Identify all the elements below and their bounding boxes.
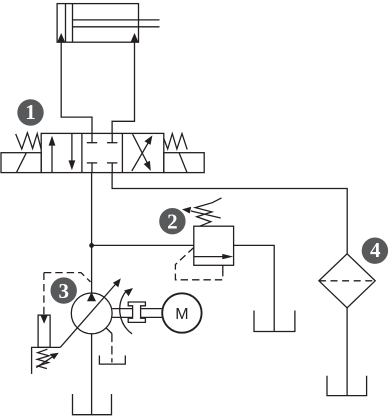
valve center square blocked ports [87, 133, 118, 172]
compensator feedback pilot (dashed) [44, 273, 91, 315]
cylinder port arrow right [131, 33, 139, 42]
svg-text:2: 2 [167, 209, 178, 233]
valve U1 body [41, 133, 164, 172]
coupling [128, 302, 145, 322]
valve right square cross arrow 2 [133, 134, 151, 171]
svg-text:3: 3 [58, 279, 69, 303]
pump variable displacement arrow [60, 278, 121, 347]
cylinder rod [73, 20, 160, 27]
wire relief valve to tank [234, 245, 275, 331]
svg-text:1: 1 [25, 100, 36, 124]
shaft pump to motor [112, 309, 162, 318]
valve left solenoid [1, 153, 41, 173]
callout 1 [17, 99, 43, 125]
filter F1 diamond [319, 254, 375, 308]
valve divider left [81, 133, 83, 172]
valve left square down arrow [69, 134, 76, 170]
valve right solenoid [164, 153, 204, 173]
pump drain line (dashed) [106, 328, 112, 363]
callout 3 [51, 277, 77, 303]
relief valve adjust arrow [182, 207, 221, 218]
valve left spring [16, 133, 42, 150]
relief valve spring [195, 198, 221, 226]
pump P1 circle [71, 293, 112, 334]
compensator spring frame [32, 347, 61, 374]
pump rotation arc arrow [120, 288, 133, 334]
valve divider right [121, 133, 123, 172]
valve right square cross arrow 1 [132, 135, 153, 171]
valve left square up arrow [49, 136, 56, 172]
wire cylinder-left to valve port A [61, 42, 92, 133]
svg-text:4: 4 [370, 238, 381, 262]
wire cylinder-right to valve port B [112, 42, 134, 133]
cylinder piston [66, 4, 73, 43]
junction node [89, 243, 94, 248]
relief valve V2 body [194, 226, 234, 265]
motor M1 circle [162, 293, 201, 332]
callout 4 [362, 238, 388, 264]
cylinder port arrow left [57, 33, 65, 42]
filter element (dashed) [319, 280, 375, 282]
cylinder body [57, 4, 138, 43]
tank drain small [99, 356, 125, 365]
compensator actuator arrow [40, 315, 48, 324]
compensator adjust arrow [36, 353, 59, 368]
relief valve pilot line (dashed) [175, 248, 222, 280]
callout 2 [159, 208, 185, 234]
wire pump to tank bottom [91, 334, 93, 415]
valve right spring [164, 134, 187, 150]
pump outlet triangle [87, 292, 96, 301]
tank bottom [73, 394, 112, 415]
wire valve P to pump [91, 173, 93, 293]
wire filter to tank right [346, 308, 348, 396]
wire junction to relief valve [92, 244, 194, 246]
relief valve flow arrow [194, 254, 234, 259]
tank right [327, 376, 367, 396]
svg-text:M: M [175, 306, 188, 323]
wire valve T to filter (tank return line) [112, 173, 347, 254]
compensator spring [37, 349, 49, 368]
tank middle [254, 311, 295, 332]
compensator actuator body [38, 315, 50, 347]
